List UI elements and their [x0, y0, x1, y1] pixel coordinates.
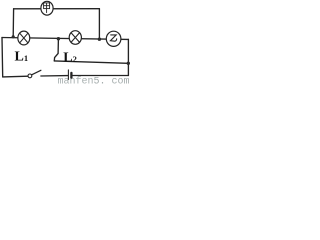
lamp L1 [18, 31, 30, 45]
node B junction dot [57, 37, 60, 40]
wire bottom horizontal left to switch [3, 75, 28, 78]
wire bottom battery to right corner [73, 75, 129, 77]
node A junction dot [12, 35, 15, 38]
node D junction dot [127, 62, 130, 65]
wire bottom switch to battery [41, 75, 68, 77]
meter 甲 character [44, 3, 50, 13]
wire bypass vertical from node B [54, 39, 58, 61]
wire middle horizontal [2, 38, 128, 40]
wire left vertical upper [12, 9, 14, 37]
wire left edge vertical [1, 38, 4, 77]
wire right edge vertical [127, 39, 129, 75]
meter 乙 (U2) circle [106, 31, 121, 46]
meter 甲 (U1) circle [41, 1, 53, 15]
wire top horizontal [14, 8, 100, 10]
switch S1 open lever [28, 74, 32, 78]
lamp L2 [69, 31, 81, 45]
battery cell [67, 70, 69, 80]
svg-text:L1: L1 [15, 49, 29, 64]
wire bypass horizontal to node D [54, 61, 128, 63]
wire right vertical upper [98, 9, 100, 39]
svg-text:L2: L2 [63, 50, 77, 65]
node C junction dot [98, 38, 101, 41]
meter 乙 character [110, 35, 116, 41]
